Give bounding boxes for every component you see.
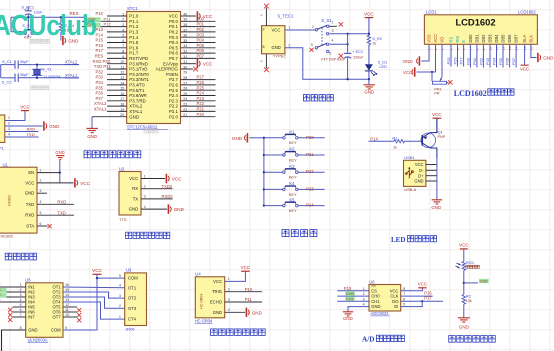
power port VCC pin40 <box>197 11 213 20</box>
svg-text:STA: STA <box>26 224 34 229</box>
svg-text:4: 4 <box>40 200 42 204</box>
svg-text:B6: B6 <box>262 45 266 49</box>
svg-text:GND: GND <box>252 310 263 315</box>
svg-text:P2.3: P2.3 <box>169 98 179 103</box>
svg-text:P0.0: P0.0 <box>169 19 179 24</box>
svg-text:6: 6 <box>403 297 405 301</box>
wire P26 <box>453 44 458 66</box>
svg-text:GND: GND <box>431 205 441 210</box>
svg-text:P23: P23 <box>197 96 205 101</box>
photoresistor RG1 <box>456 260 480 295</box>
svg-text:1: 1 <box>332 21 334 25</box>
svg-text:2: 2 <box>8 122 10 126</box>
svg-text:S_R2: S_R2 <box>372 37 382 41</box>
ground power port LCD VSS <box>403 56 420 65</box>
wire TRIG P10 <box>225 287 262 292</box>
svg-text:35: 35 <box>183 39 187 43</box>
wire U1 STA no-connect <box>37 224 52 228</box>
svg-text:VCC: VCC <box>418 282 427 287</box>
svg-text:34: 34 <box>183 44 187 48</box>
wire BLK to GND <box>531 44 537 57</box>
svg-text:K5: K5 <box>289 197 295 202</box>
svg-text:P17: P17 <box>424 296 432 301</box>
svg-text:TRIG: TRIG <box>212 289 222 294</box>
svg-text:VCC: VCC <box>80 181 90 186</box>
wire CH1 (highlighted) <box>337 296 369 301</box>
svg-text:P3.1/TxD: P3.1/TxD <box>129 67 147 72</box>
svg-text:VCC: VCC <box>203 62 213 67</box>
svg-text:CH1: CH1 <box>371 299 380 304</box>
svg-text:DB5: DB5 <box>501 34 506 43</box>
svg-text:P35: P35 <box>96 85 104 90</box>
svg-text:HC802: HC802 <box>1 234 14 239</box>
svg-text:1: 1 <box>228 277 230 281</box>
svg-text:P26: P26 <box>197 80 205 85</box>
svg-text:P0.2: P0.2 <box>169 30 179 35</box>
wire IN6 stub no-connect <box>8 312 26 317</box>
wire IN4 from edge <box>0 301 26 303</box>
svg-text:P21: P21 <box>306 152 314 157</box>
capacitor EC1 220uF <box>344 34 364 79</box>
svg-text:VCC: VCC <box>172 177 182 182</box>
svg-text:4: 4 <box>8 133 10 137</box>
svg-text:DI: DI <box>394 304 398 309</box>
junction <box>368 33 370 35</box>
svg-text:P10: P10 <box>245 287 253 292</box>
wire P27 <box>459 44 464 66</box>
wire P03 <box>485 44 490 67</box>
wire P24 <box>298 203 325 208</box>
pin 21 wire (right) <box>181 113 216 117</box>
svg-text:P0.1: P0.1 <box>169 24 179 29</box>
caption dan-pian-ji-zui-xiao-xi-tong <box>84 151 141 158</box>
svg-text:P36: P36 <box>96 91 104 96</box>
svg-text:P16: P16 <box>96 43 104 48</box>
wire RES net <box>11 17 86 31</box>
svg-text:P1.0: P1.0 <box>129 14 139 19</box>
svg-text:30pF: 30pF <box>20 72 29 77</box>
capacitor S_C2 30pF <box>2 72 29 84</box>
svg-text:5: 5 <box>122 34 124 38</box>
svg-text:DB6: DB6 <box>507 34 512 43</box>
wire ECHO P11 <box>225 297 262 302</box>
svg-text:3: 3 <box>40 189 42 193</box>
svg-text:JR06: JR06 <box>125 326 135 331</box>
svg-text:VCC: VCC <box>520 67 529 72</box>
ground power port keys <box>232 133 264 142</box>
svg-text:VCC: VCC <box>433 34 438 43</box>
svg-text:40: 40 <box>183 12 187 16</box>
net label P15 (highlighted, cut) <box>0 292 7 297</box>
junction <box>346 33 348 35</box>
svg-text:7: 7 <box>122 44 124 48</box>
ground above U1 <box>55 150 64 183</box>
svg-text:1: 1 <box>122 12 124 16</box>
svg-text:P0.5: P0.5 <box>169 45 179 50</box>
svg-text:PNP: PNP <box>438 135 446 139</box>
svg-text:36: 36 <box>183 34 187 38</box>
svg-text:1: 1 <box>363 287 365 291</box>
svg-text:10k: 10k <box>466 299 472 303</box>
pin 30 wire (right) <box>181 65 194 69</box>
svg-text:USB-A: USB-A <box>404 187 416 192</box>
svg-text:GND: GND <box>129 207 139 212</box>
junction <box>463 282 465 284</box>
svg-text:GND: GND <box>25 191 35 196</box>
svg-text:16: 16 <box>120 92 124 96</box>
pin 5 wire (left) <box>107 34 127 38</box>
pin 31 wire (right) <box>181 60 197 64</box>
svg-text:XTAL2: XTAL2 <box>129 104 143 109</box>
wire P04 <box>492 44 497 67</box>
wire IN1 from edge <box>0 286 26 288</box>
svg-text:3: 3 <box>144 195 146 199</box>
svg-text:VCC: VCC <box>459 243 469 248</box>
svg-text:XTAL2: XTAL2 <box>65 59 78 64</box>
svg-text:P33: P33 <box>96 75 104 80</box>
wire U1 EN <box>37 171 61 173</box>
label ADC0832 <box>371 311 390 316</box>
key K4 <box>264 181 298 197</box>
svg-text:29: 29 <box>183 71 187 75</box>
wire conn pin2 to GND <box>5 122 43 126</box>
svg-text:CS: CS <box>371 288 377 293</box>
svg-text:VCC: VCC <box>432 112 442 117</box>
wire U2 GND <box>141 208 167 210</box>
svg-text:HC-SR04: HC-SR04 <box>195 319 213 324</box>
driver U5 ULN2003A body <box>20 278 70 338</box>
svg-text:P07: P07 <box>197 54 205 59</box>
svg-text:TXD: TXD <box>26 202 35 207</box>
svg-text:5: 5 <box>311 43 313 47</box>
svg-text:P2.7: P2.7 <box>169 77 179 82</box>
svg-text:P21: P21 <box>197 107 205 112</box>
resistor S_R4 <box>59 17 74 40</box>
svg-text:VCC: VCC <box>272 28 281 33</box>
svg-text:E: E <box>461 40 466 43</box>
svg-text:220uF: 220uF <box>353 56 364 60</box>
svg-text:4: 4 <box>228 308 230 312</box>
wire XTAL1 net <box>1 77 79 79</box>
wire OT5 stub no-connect <box>63 307 81 312</box>
wire switch pin4 to rail <box>330 43 348 45</box>
resistor R2 10k <box>462 293 472 317</box>
svg-text:OT3: OT3 <box>128 306 137 311</box>
svg-text:P2.4: P2.4 <box>169 93 179 98</box>
svg-text:RXD: RXD <box>27 127 36 132</box>
pin 35 wire (right) <box>181 39 216 43</box>
svg-text:EN: EN <box>28 170 34 175</box>
module U2 body <box>119 166 146 222</box>
wire COM to VCC <box>63 278 125 330</box>
svg-text:P25: P25 <box>197 85 205 90</box>
module U4 HC-SR04 body <box>195 272 230 318</box>
svg-text:U4: U4 <box>195 272 201 277</box>
connector P? (cut off at edge) <box>0 115 5 151</box>
svg-text:KEY: KEY <box>289 208 297 213</box>
svg-text:8: 8 <box>403 287 405 291</box>
svg-text:P04: P04 <box>492 57 497 65</box>
wire P23 <box>298 186 325 191</box>
svg-text:P0.6: P0.6 <box>169 51 179 56</box>
ground light sensor <box>458 318 470 330</box>
svg-text:CH0: CH0 <box>480 279 489 284</box>
svg-text:DB0: DB0 <box>468 34 473 43</box>
pin 10 wire (left) <box>107 60 127 64</box>
junction <box>368 78 370 80</box>
svg-text:GND: GND <box>174 207 185 212</box>
svg-text:26: 26 <box>183 87 187 91</box>
wire P06 <box>505 44 510 67</box>
junction <box>263 171 265 173</box>
pin 19 wire (left) <box>107 108 127 112</box>
wire OT2 to U3 <box>63 292 125 298</box>
junction <box>263 137 265 139</box>
svg-text:P00: P00 <box>465 57 470 65</box>
pin 13 wire (left) <box>107 76 127 80</box>
ground power port serial <box>44 121 60 130</box>
junction <box>96 277 98 279</box>
svg-text:RES: RES <box>95 54 104 59</box>
power VCC U4 <box>241 265 251 271</box>
svg-text:P01: P01 <box>197 22 205 27</box>
svg-text:22: 22 <box>183 108 187 112</box>
wire P00 <box>465 44 470 67</box>
svg-text:4: 4 <box>144 205 146 209</box>
svg-text:TTS: TTS <box>119 217 127 222</box>
svg-text:U1: U1 <box>3 162 9 167</box>
wire U4 VCC <box>225 271 246 281</box>
wire P21 <box>298 152 325 157</box>
svg-text:U2: U2 <box>119 166 125 171</box>
svg-text:GND: GND <box>87 134 97 139</box>
svg-text:GND: GND <box>403 59 413 64</box>
svg-text:5: 5 <box>403 303 405 307</box>
svg-text:P17: P17 <box>96 48 104 53</box>
svg-text:4: 4 <box>119 284 121 288</box>
wire CH0 (highlighted) <box>337 291 369 296</box>
junction <box>263 154 265 156</box>
svg-text:TYPEC: TYPEC <box>273 54 286 59</box>
svg-text:15: 15 <box>120 87 124 91</box>
svg-text:27: 27 <box>183 81 187 85</box>
wire OT7 stub no-connect <box>63 317 81 322</box>
svg-text:GND: GND <box>213 310 222 315</box>
svg-text:1k: 1k <box>393 145 397 149</box>
svg-text:OT1: OT1 <box>128 285 137 290</box>
svg-text:GND: GND <box>129 114 139 119</box>
pin 9 wire (left) <box>107 55 127 59</box>
svg-text:P02: P02 <box>478 57 483 65</box>
svg-text:31: 31 <box>183 60 187 64</box>
svg-text:P1.2: P1.2 <box>129 24 139 29</box>
caption chao-sheng-bo-ce-ju-mo-kuai <box>211 329 266 336</box>
svg-text:RX: RX <box>132 186 138 191</box>
svg-text:CT4: CT4 <box>128 317 137 322</box>
svg-text:P1.4: P1.4 <box>129 35 139 40</box>
junction <box>36 63 38 65</box>
wire XTAL2 net <box>1 65 79 78</box>
svg-text:BLA: BLA <box>522 35 527 43</box>
module U3 body <box>119 268 147 332</box>
svg-text:P0.3: P0.3 <box>169 35 179 40</box>
wire P20 <box>298 135 325 140</box>
svg-text:DB1: DB1 <box>475 34 480 43</box>
junction <box>421 300 423 302</box>
label HC-SR04 <box>195 319 213 324</box>
wire OT6 stub no-connect <box>63 312 81 317</box>
pin 29 wire (right) <box>183 71 187 75</box>
svg-text:S_C1: S_C1 <box>2 59 12 64</box>
svg-text:P05: P05 <box>498 57 503 65</box>
caption A/D zhuan-huan-dian-lu <box>362 335 404 343</box>
ground power port <box>63 36 79 45</box>
comment text (grey) <box>31 86 49 90</box>
svg-text:K2: K2 <box>289 147 295 152</box>
no-connect shield bottom <box>260 54 269 72</box>
pin 24 wire (right) <box>181 97 216 101</box>
power VCC S_power <box>364 11 374 35</box>
wire CLK P16 <box>401 290 433 296</box>
svg-text:U6: U6 <box>369 279 375 284</box>
key K5 <box>264 197 298 213</box>
svg-text:ECHO: ECHO <box>210 300 223 305</box>
resistor R1 1k <box>392 135 422 149</box>
svg-text:VO: VO <box>440 37 445 43</box>
ground power port U2 <box>168 204 184 213</box>
svg-text:9: 9 <box>122 55 124 59</box>
pin 4 wire (left) <box>107 28 127 32</box>
svg-text:2: 2 <box>289 44 291 48</box>
svg-text:13: 13 <box>120 76 124 80</box>
svg-text:RST/VPD: RST/VPD <box>129 56 148 61</box>
junction <box>60 16 62 18</box>
svg-text:2: 2 <box>144 185 146 189</box>
LED S_D1 <box>365 60 387 79</box>
power VCC ULN/relay <box>92 268 102 278</box>
svg-text:VCC: VCC <box>241 265 251 270</box>
svg-text:LED: LED <box>379 65 387 69</box>
svg-text:5: 5 <box>40 211 42 215</box>
wire OT3 to U3 <box>63 297 125 308</box>
wire U2 RX TXD2 <box>141 184 173 189</box>
junction <box>346 43 348 45</box>
svg-text:S_C2: S_C2 <box>2 80 12 85</box>
svg-text:R1: R1 <box>392 135 398 140</box>
wire USB pins to collector rail <box>426 158 437 199</box>
pin 8 wire (left) <box>107 50 127 54</box>
svg-text:7: 7 <box>403 292 405 296</box>
wire DO P17 <box>401 296 443 302</box>
svg-text:1: 1 <box>144 174 146 178</box>
svg-text:10: 10 <box>120 60 124 64</box>
svg-text:GND: GND <box>55 150 64 155</box>
power port VCC U1 <box>75 178 91 187</box>
power VCC ADC <box>418 282 427 288</box>
svg-text:XTAL1: XTAL1 <box>129 109 143 114</box>
svg-text:P3.5/T1: P3.5/T1 <box>129 88 145 93</box>
svg-text:RW: RW <box>455 36 460 43</box>
wire IN5 stub no-connect <box>8 307 26 312</box>
svg-text:OT7: OT7 <box>52 315 61 320</box>
wire U4 GND <box>225 311 245 313</box>
wire U1 GND stub <box>37 192 47 194</box>
svg-text:P1.1: P1.1 <box>129 19 139 24</box>
svg-text:RG1: RG1 <box>466 260 475 265</box>
svg-text:COM: COM <box>51 328 61 333</box>
svg-text:HC-SR04: HC-SR04 <box>200 294 204 309</box>
svg-text:2: 2 <box>119 304 121 308</box>
svg-text:COM: COM <box>128 276 138 281</box>
svg-text:A/D: A/D <box>362 336 374 344</box>
pin 37 wire (right) <box>181 28 216 32</box>
svg-text:S_D1: S_D1 <box>378 60 388 64</box>
svg-text:DB7: DB7 <box>514 34 519 43</box>
ground ADC <box>343 312 354 321</box>
wire OT1 to U3 <box>63 286 125 289</box>
svg-text:S_Y1: S_Y1 <box>42 66 52 71</box>
wire U2 VCC <box>141 178 165 180</box>
svg-text:TXD: TXD <box>57 210 65 215</box>
svg-text:GND: GND <box>28 328 37 333</box>
svg-text:DB2: DB2 <box>481 34 486 43</box>
wire IN2 from edge <box>0 291 26 293</box>
svg-text:25: 25 <box>183 92 187 96</box>
svg-text:ULN2003A: ULN2003A <box>28 338 48 343</box>
pin 33 wire (right) <box>181 50 216 54</box>
svg-text:30pF: 30pF <box>20 59 29 64</box>
transistor Q1 PNP <box>421 118 446 158</box>
svg-text:P16: P16 <box>424 290 432 295</box>
module USB1 body <box>404 155 426 192</box>
pin 23 wire (right) <box>181 103 216 107</box>
svg-text:GND: GND <box>232 136 243 141</box>
svg-text:3: 3 <box>119 294 121 298</box>
svg-text:RXD2: RXD2 <box>162 194 174 199</box>
svg-text:P32: P32 <box>96 69 104 74</box>
junction <box>263 188 265 190</box>
svg-text:1k: 1k <box>372 42 376 46</box>
svg-text:P07: P07 <box>511 57 516 65</box>
svg-text:28: 28 <box>183 76 187 80</box>
svg-text:KEY: KEY <box>289 192 297 197</box>
svg-text:DO: DO <box>392 299 398 304</box>
svg-text:VCC: VCC <box>390 288 399 293</box>
wire conn pin4 TXD <box>5 132 39 137</box>
svg-text:KEY: KEY <box>289 175 297 180</box>
svg-text:ACUclub: ACUclub <box>0 10 97 42</box>
svg-text:6: 6 <box>329 52 331 56</box>
pin 12 wire (left) <box>107 71 127 75</box>
svg-text:A6: A6 <box>262 27 266 31</box>
svg-text:Q1: Q1 <box>438 130 444 135</box>
pin 7 wire (left) <box>107 44 127 48</box>
key K2 <box>264 147 298 163</box>
svg-text:TXD2: TXD2 <box>162 184 173 189</box>
pin 25 wire (right) <box>181 92 216 96</box>
svg-text:2: 2 <box>40 179 42 183</box>
ground power port U4 <box>246 308 262 317</box>
svg-text:6: 6 <box>40 222 42 226</box>
pin 17 wire (left) <box>107 97 127 101</box>
wire CH0 tap (highlighted) <box>464 279 489 284</box>
svg-text:KEY: KEY <box>289 140 297 145</box>
wire P25 <box>446 44 451 66</box>
svg-text:CH0: CH0 <box>346 291 355 296</box>
svg-text:P3.0/RxD: P3.0/RxD <box>129 61 148 66</box>
svg-text:GND: GND <box>414 179 423 184</box>
wire U1 RXD to TXD net <box>37 210 74 215</box>
